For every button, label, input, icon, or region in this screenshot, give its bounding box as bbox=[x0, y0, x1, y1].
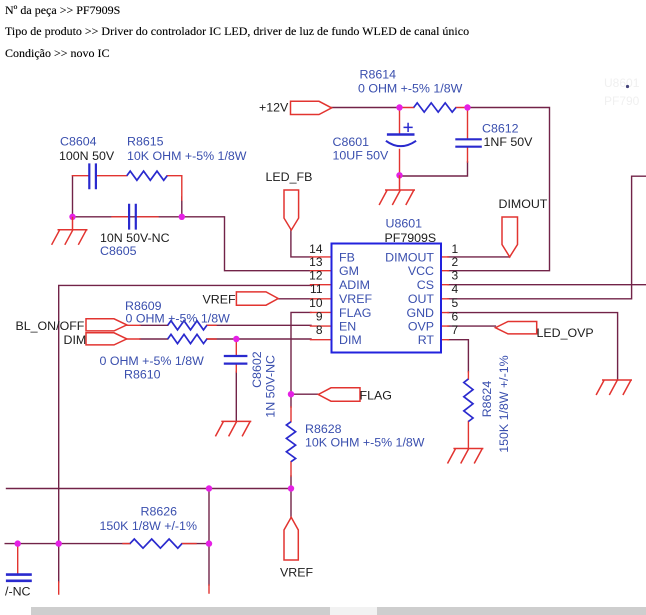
svg-text:VREF: VREF bbox=[203, 293, 236, 307]
svg-text:7: 7 bbox=[452, 323, 459, 337]
pin stubs left U8601 bbox=[311, 257, 332, 340]
node dot C8604 left bbox=[69, 214, 75, 220]
wire FLAG branch bbox=[291, 393, 318, 395]
svg-text:10K OHM +-5% 1/8W: 10K OHM +-5% 1/8W bbox=[305, 435, 425, 449]
capacitor C8601 plates polarized bbox=[387, 133, 415, 135]
svg-text:1: 1 bbox=[452, 242, 459, 256]
pin stubs right U8601 bbox=[441, 257, 449, 340]
svg-text:GM: GM bbox=[339, 264, 359, 278]
ground GND pin 5 bbox=[596, 380, 632, 395]
wire pin 7 RT to R8624 bbox=[448, 340, 468, 372]
wire red top rail C8604 R8615 bbox=[73, 176, 182, 200]
scrollbar track bbox=[31, 607, 646, 615]
port LED_OVP bbox=[495, 322, 536, 334]
wire node B to VCC riser bbox=[448, 108, 550, 271]
wire pin 10 FLAG riser bbox=[291, 312, 311, 407]
svg-text:150K 1/8W +/-1%: 150K 1/8W +/-1% bbox=[497, 355, 511, 452]
svg-text:C8605: C8605 bbox=[100, 244, 137, 258]
wire LED_FB to pin 14 FB bbox=[291, 230, 311, 257]
svg-text:1N 50V-NC: 1N 50V-NC bbox=[264, 355, 278, 418]
svg-text:RT: RT bbox=[418, 333, 435, 347]
svg-text:9: 9 bbox=[316, 310, 323, 324]
svg-text:FB: FB bbox=[339, 250, 355, 264]
wire C8601 bottom to C8612 bottom bbox=[400, 162, 468, 176]
svg-text:11: 11 bbox=[310, 282, 323, 296]
capacitor C8612 plates bbox=[455, 139, 482, 146]
port DIM bbox=[86, 333, 127, 345]
svg-text:DIMOUT: DIMOUT bbox=[385, 250, 434, 264]
node dot R8626 right bbox=[206, 540, 212, 546]
svg-text:13: 13 bbox=[309, 255, 323, 269]
wire red leads C8602 bbox=[235, 339, 237, 372]
resistor R8624 vertical bbox=[464, 379, 473, 422]
svg-text:+12V: +12V bbox=[259, 100, 289, 114]
svg-text:U8601: U8601 bbox=[386, 217, 423, 231]
svg-text:/-NC: /-NC bbox=[5, 585, 31, 599]
wire node C8605 to pin 13 GM bbox=[182, 217, 311, 271]
ground under C8601 bbox=[379, 175, 415, 205]
port DIMOUT bbox=[502, 217, 518, 257]
svg-text:C8604: C8604 bbox=[60, 135, 97, 149]
svg-text:R8626: R8626 bbox=[141, 505, 178, 519]
capacitor C8604 plates bbox=[89, 163, 96, 189]
svg-text:100N 50V: 100N 50V bbox=[59, 149, 115, 163]
svg-text:R8614: R8614 bbox=[360, 68, 397, 82]
wire pin 5 GND to ground bbox=[448, 313, 618, 380]
svg-text:2: 2 bbox=[452, 255, 459, 269]
svg-text:FLAG: FLAG bbox=[360, 389, 392, 403]
watermark ghost top right bbox=[604, 76, 640, 108]
wire vertical at node J bbox=[208, 489, 210, 586]
capacitor C8602 plates bbox=[224, 356, 248, 364]
wire red leads C8605 bbox=[112, 216, 158, 218]
svg-text:DIM: DIM bbox=[339, 333, 362, 347]
node dot C8602 top bbox=[233, 336, 239, 342]
node dot C bottom left bbox=[15, 540, 21, 546]
wire R8610 to pin 8 DIM bbox=[140, 338, 311, 340]
wire red lead C8613 bottom left bbox=[17, 544, 19, 574]
svg-text:R8628: R8628 bbox=[305, 422, 342, 436]
svg-text:FLAG: FLAG bbox=[339, 306, 371, 320]
wire red bottom stubs bbox=[59, 582, 209, 594]
svg-text:VREF: VREF bbox=[339, 292, 372, 306]
svg-text:LED_FB: LED_FB bbox=[266, 170, 313, 184]
svg-text:PF790: PF790 bbox=[604, 94, 640, 108]
wire red leads R8628 bbox=[290, 407, 292, 476]
svg-text:R8624: R8624 bbox=[480, 381, 494, 418]
wire +12V feed to node A bbox=[332, 107, 400, 109]
svg-text:EN: EN bbox=[339, 320, 356, 334]
wire pin 3 CS off-page bbox=[448, 284, 646, 286]
wire red leads R8614 bbox=[400, 107, 468, 109]
resistor R8614 bbox=[414, 103, 456, 112]
node dot rail x58 bbox=[56, 540, 62, 546]
svg-text:1NF 50V: 1NF 50V bbox=[484, 135, 534, 149]
port FLAG bbox=[318, 388, 360, 401]
svg-text:5: 5 bbox=[452, 296, 459, 310]
ground under C8602 bbox=[215, 421, 251, 436]
svg-text:C8602: C8602 bbox=[250, 351, 264, 388]
wire red leads R8626 bbox=[123, 543, 196, 545]
pin names right bbox=[385, 250, 434, 347]
pin numbers right bbox=[452, 242, 459, 337]
svg-text:OVP: OVP bbox=[408, 320, 434, 334]
svg-text:14: 14 bbox=[309, 242, 323, 256]
svg-text:12: 12 bbox=[309, 269, 323, 283]
ground under C8604 node bbox=[52, 217, 88, 245]
wire C8605 bottom rail bbox=[73, 216, 182, 218]
svg-text:VREF: VREF bbox=[280, 566, 313, 580]
svg-text:C8601: C8601 bbox=[333, 135, 370, 149]
node dot rail J bbox=[206, 485, 212, 491]
svg-text:CS: CS bbox=[417, 278, 434, 292]
wire R8628 bottom to VREF node bbox=[290, 476, 292, 517]
svg-text:10K OHM +-5% 1/8W: 10K OHM +-5% 1/8W bbox=[127, 149, 247, 163]
wire C8604 loop right vertical bbox=[181, 197, 183, 217]
svg-text:150K 1/8W +/-1%: 150K 1/8W +/-1% bbox=[100, 519, 197, 533]
capacitor C8613 bottom left plates bbox=[6, 575, 32, 581]
port +12V bbox=[291, 101, 332, 114]
svg-text:0 OHM +-5% 1/8W: 0 OHM +-5% 1/8W bbox=[126, 312, 231, 326]
wire C8602 ground drop bbox=[235, 372, 237, 421]
wire pin 6 OVP to LED_OVP bbox=[448, 325, 495, 327]
wire red leads C8601 bbox=[399, 108, 401, 175]
port BL_ON/OFF bbox=[86, 319, 127, 331]
svg-text:GND: GND bbox=[406, 306, 434, 320]
wire red leads R8610 bbox=[127, 338, 216, 340]
wire red leads R8624 bbox=[467, 372, 469, 449]
wire ADIM rail pin 12 bbox=[59, 285, 311, 582]
svg-text:VCC: VCC bbox=[408, 264, 434, 278]
svg-text:PF7909S: PF7909S bbox=[385, 231, 437, 245]
svg-text:BL_ON/OFF: BL_ON/OFF bbox=[16, 319, 85, 333]
resistor R8615 bbox=[127, 171, 167, 180]
svg-text:6: 6 bbox=[452, 310, 459, 324]
svg-text:0 OHM +-5% 1/8W: 0 OHM +-5% 1/8W bbox=[100, 354, 205, 368]
wire VREF to pin 11 bbox=[278, 298, 311, 300]
svg-text:8: 8 bbox=[316, 323, 323, 337]
node dot R8628 bottom bbox=[288, 485, 294, 491]
resistor R8610 bbox=[168, 334, 207, 343]
resistor R8628 vertical bbox=[286, 422, 295, 462]
svg-text:OUT: OUT bbox=[408, 292, 435, 306]
wire VREF bottom rail bbox=[7, 488, 291, 490]
svg-text:R8610: R8610 bbox=[124, 368, 161, 382]
svg-text:4: 4 bbox=[452, 282, 459, 296]
port LED_FB bbox=[284, 190, 299, 230]
scrollbar thumb bbox=[330, 607, 377, 615]
svg-text:10UF 50V: 10UF 50V bbox=[333, 149, 390, 163]
svg-text:DIMOUT: DIMOUT bbox=[499, 197, 548, 211]
wire R8626 rail bbox=[5, 543, 209, 545]
op-amp U8601 body bbox=[332, 244, 442, 353]
resistor R8626 bbox=[130, 539, 182, 548]
capacitor C8601 plus sign bbox=[404, 123, 413, 132]
svg-text:U8601: U8601 bbox=[604, 76, 640, 90]
wire pin 1 to DIMOUT bbox=[448, 256, 510, 258]
node dot C8601 bottom bbox=[396, 172, 402, 178]
resistor R8609 bbox=[168, 321, 207, 330]
pin numbers left bbox=[309, 242, 323, 337]
wire R8609 to pin 9 EN bbox=[140, 324, 311, 326]
svg-text:3: 3 bbox=[452, 269, 459, 283]
wire pin 4 OUT off-page bbox=[448, 176, 646, 299]
svg-text:C8612: C8612 bbox=[482, 122, 519, 136]
svg-text:10: 10 bbox=[309, 296, 323, 310]
ground under R8624 bbox=[448, 449, 484, 464]
svg-text:DIM: DIM bbox=[64, 333, 87, 347]
node dot R8614/C8612 bbox=[464, 104, 470, 110]
wire red leads C8612 bbox=[467, 108, 469, 163]
svg-text:ADIM: ADIM bbox=[339, 278, 370, 292]
port VREF bottom bbox=[284, 517, 298, 560]
wire red leads R8609 bbox=[127, 324, 216, 326]
node dot C8605 right bbox=[179, 214, 185, 220]
node dot FLAG bbox=[288, 391, 294, 397]
svg-text:10N 50V-NC: 10N 50V-NC bbox=[100, 231, 170, 245]
wire C8604 loop left vertical bbox=[72, 176, 74, 217]
svg-text:0 OHM +-5% 1/8W: 0 OHM +-5% 1/8W bbox=[358, 81, 463, 95]
capacitor C8605 plates bbox=[129, 204, 136, 230]
svg-text:LED_OVP: LED_OVP bbox=[537, 326, 594, 340]
node dot +12V/R8614 bbox=[396, 104, 402, 110]
svg-text:R8615: R8615 bbox=[127, 135, 164, 149]
port VREF mid bbox=[236, 292, 278, 305]
